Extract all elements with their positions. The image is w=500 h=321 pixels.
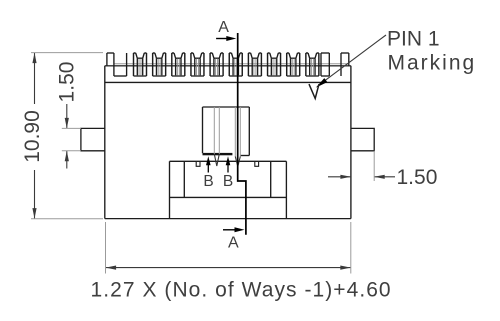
svg-text:1.50: 1.50	[56, 62, 79, 103]
svg-text:A: A	[218, 19, 229, 36]
svg-text:B: B	[223, 173, 233, 190]
svg-text:PIN 1: PIN 1	[387, 27, 440, 50]
svg-text:1.27 X (No. of Ways -1)+4.60: 1.27 X (No. of Ways -1)+4.60	[91, 279, 392, 302]
svg-text:Marking: Marking	[388, 51, 477, 74]
svg-text:A: A	[228, 234, 239, 251]
svg-text:B: B	[203, 173, 213, 190]
svg-text:1.50: 1.50	[397, 166, 438, 189]
svg-text:10.90: 10.90	[21, 110, 44, 163]
